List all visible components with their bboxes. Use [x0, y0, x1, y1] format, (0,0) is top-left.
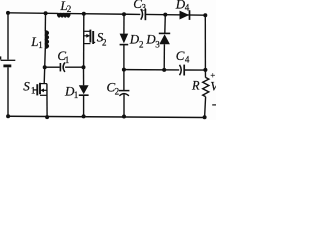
- node C2 bottom: [122, 115, 126, 119]
- node C3/D3/D4 junction: [163, 13, 167, 17]
- node D2 top: [122, 12, 126, 16]
- svg-text:S: S: [23, 78, 30, 93]
- capacitor C2: [119, 70, 130, 117]
- svg-text:3: 3: [142, 3, 147, 13]
- diode D3: [159, 15, 170, 70]
- battery short plate: [3, 65, 11, 68]
- diode D1: [79, 67, 89, 116]
- node bottom-left corner: [6, 114, 10, 118]
- svg-text:R: R: [191, 79, 200, 93]
- capacitor C4: [180, 65, 185, 76]
- node top-right corner: [203, 13, 207, 17]
- diode D4: [180, 10, 190, 20]
- inductor L1: [45, 31, 48, 49]
- svg-text:1: 1: [65, 55, 70, 65]
- node bottom-right corner: [203, 115, 207, 119]
- wire top rail left segment: [8, 12, 58, 15]
- wire C1 left: [45, 66, 60, 68]
- node D1 bottom: [82, 114, 86, 118]
- node C2 top: [122, 68, 126, 72]
- diode D2: [120, 14, 129, 69]
- node S1 bottom: [45, 115, 49, 119]
- wire middle rail (C2 node to C4): [124, 69, 179, 71]
- wire right edge vertical: [204, 15, 206, 70]
- transistor S1: [34, 67, 48, 117]
- svg-text:2: 2: [139, 39, 144, 49]
- battery negative lead: [7, 67, 9, 116]
- wire C1 right: [65, 66, 83, 68]
- wire C4 to output node: [185, 69, 206, 71]
- node L1 top: [44, 11, 48, 15]
- svg-text:1: 1: [31, 86, 36, 96]
- svg-text:1: 1: [38, 40, 43, 50]
- wire bottom rail: [8, 116, 205, 117]
- svg-text:V: V: [210, 80, 216, 94]
- node output top: [203, 68, 207, 72]
- svg-text:4: 4: [185, 54, 190, 64]
- node C1 left: [43, 65, 47, 69]
- svg-text:C: C: [176, 48, 185, 63]
- svg-text:4: 4: [185, 3, 190, 13]
- capacitor C1: [60, 63, 65, 72]
- transistor S2: [84, 14, 96, 67]
- node: top-left junction: [6, 11, 10, 15]
- inductor L2: [58, 13, 70, 17]
- svg-text:2: 2: [67, 4, 72, 14]
- svg-text:1: 1: [74, 90, 79, 100]
- svg-text:+: +: [210, 70, 215, 80]
- label fragment at left edge: [0, 56, 1, 59]
- node C1 right: [82, 65, 86, 69]
- battery long plate: [1, 59, 16, 61]
- capacitor C3: [141, 9, 146, 20]
- wire L1 to C1 node: [44, 48, 47, 67]
- node S2 top: [82, 12, 86, 16]
- wire top rail mid segment (L2 to C3): [70, 13, 141, 16]
- node D3 bottom: [162, 68, 166, 72]
- label minus: [212, 104, 216, 106]
- battery V1 positive lead: [7, 13, 9, 60]
- svg-text:2: 2: [115, 86, 120, 96]
- svg-text:2: 2: [102, 37, 107, 47]
- wire top rail right segment (C3 to D4 to corner): [146, 13, 206, 16]
- svg-text:L: L: [30, 34, 38, 49]
- wire L1 branch upper: [44, 13, 46, 31]
- resistor R: [203, 70, 209, 117]
